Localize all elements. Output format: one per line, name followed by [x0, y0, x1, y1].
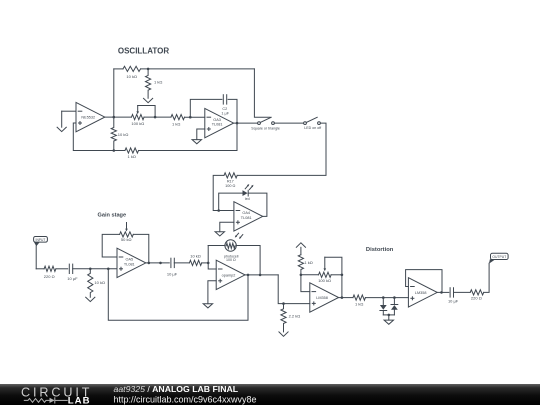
junction OA3 output node — [236, 122, 239, 125]
wire to ground — [388, 315, 390, 320]
wire R17 to OA4 inverting — [213, 175, 234, 210]
wire diode common — [383, 314, 394, 316]
svg-text:led: led — [245, 197, 250, 201]
svg-text:10 µF: 10 µF — [448, 299, 459, 304]
svg-text:LM358: LM358 — [316, 296, 328, 300]
footer bar — [0, 384, 540, 405]
wire opamp2 non-inverting to ground — [208, 281, 216, 304]
LED light arrows — [245, 185, 248, 189]
potentiometer R13 100 k — [319, 272, 332, 277]
wire INPUT down — [35, 246, 37, 269]
resistor R4 1 k bottom feedback — [125, 148, 139, 153]
wire bottom feedback — [139, 150, 238, 152]
wire U1 non-inverting feedback loop — [73, 123, 125, 151]
svg-text:C2: C2 — [222, 107, 227, 111]
wire up to OA3 output node — [236, 123, 238, 150]
resistor R17 100 Ohm — [224, 173, 237, 178]
svg-text:1 kΩ: 1 kΩ — [172, 121, 180, 126]
svg-text:1 kΩ: 1 kΩ — [128, 154, 136, 159]
capacitor C3 10 uF — [68, 264, 70, 273]
svg-text:10 kΩ: 10 kΩ — [118, 132, 129, 137]
R9 wiper arrow — [126, 223, 128, 229]
resistor R6 1 k series — [171, 115, 185, 120]
op-amp opamp2 — [216, 260, 245, 289]
junction D2 node — [382, 296, 385, 299]
svg-text:OUTPUT: OUTPUT — [492, 255, 506, 259]
ground (arrow) at U1 inverting input — [57, 127, 66, 131]
op-amp OA4 TL081 — [234, 202, 263, 231]
svg-text:R17: R17 — [227, 179, 234, 183]
svg-text:100 Ω: 100 Ω — [225, 184, 235, 188]
diode D3 (up) — [393, 298, 395, 305]
svg-text:100 kΩ: 100 kΩ — [131, 121, 144, 126]
wire C5 to R15 — [454, 291, 471, 293]
wire bottom feedback loop to gain stage — [108, 269, 248, 321]
ground (triangle) below diodes — [384, 320, 393, 324]
wire SW2 down to R17 — [237, 123, 326, 175]
svg-text:OA4: OA4 — [242, 211, 250, 215]
wire C3 to OA5 non-inverting — [73, 268, 117, 270]
junction feedback tap node — [107, 268, 110, 271]
svg-text:220 Ω: 220 Ω — [471, 296, 482, 301]
R5 wiper arrow and rheostat strap — [137, 106, 139, 112]
wire LED feedback loop — [219, 193, 243, 210]
resistor R14 1 k series — [353, 295, 365, 300]
junction U1 output node — [113, 116, 116, 119]
svg-text:Distortion: Distortion — [366, 247, 394, 253]
R13 wiper arrow and strap — [324, 257, 326, 268]
flag INPUT — [34, 237, 48, 243]
wire OA3 non-inverting to ground — [197, 129, 205, 140]
potentiometer R5 100 k — [132, 115, 145, 120]
ground (arrow) below R11 — [279, 332, 288, 336]
wire R9 to OA5 output — [133, 234, 149, 263]
svg-text:10 kΩ: 10 kΩ — [190, 254, 201, 259]
wire LM358 output — [339, 297, 353, 299]
junction opamp2 inverting node — [207, 262, 210, 265]
junction D3 node — [393, 296, 396, 299]
wire OA5 feedback loop — [102, 234, 119, 257]
wire LED to OA4 output — [248, 193, 267, 216]
svg-text:1 µF: 1 µF — [221, 112, 229, 116]
wire pot to output node — [341, 275, 343, 298]
wire R14 to clipping diodes — [365, 297, 408, 299]
resistor R7 220 Ohm — [44, 266, 56, 271]
wire jog to opamp2 inverting input — [208, 263, 216, 269]
wire R10 to opamp2 node — [202, 262, 209, 264]
svg-text:1 kΩ: 1 kΩ — [154, 79, 162, 84]
svg-text:TL081: TL081 — [124, 262, 135, 266]
svg-text:TL081: TL081 — [212, 123, 223, 127]
wire C2 feedback loop — [190, 99, 222, 117]
svg-text:1 kΩ: 1 kΩ — [355, 301, 363, 306]
svg-text:http://circuitlab.com/c9v6c4xx: http://circuitlab.com/c9v6c4xxwvy8e — [114, 394, 257, 404]
wire node to pot — [301, 274, 319, 276]
svg-text:10 µF: 10 µF — [67, 276, 78, 281]
ground (triangle) at OA4 — [215, 232, 224, 236]
op-amp U3 LM358 buffer — [408, 278, 437, 307]
junction LM358 output node — [341, 296, 344, 299]
resistor R10 10 k series — [189, 260, 201, 265]
svg-text:Gain stage: Gain stage — [97, 212, 126, 218]
switch SW2 LED on off — [304, 122, 307, 125]
wire pot to R6 — [144, 116, 171, 118]
supply arrow node — [300, 247, 302, 254]
wire opamp2 output to distortion — [278, 275, 310, 304]
resistor R11 2.2 k to ground — [281, 304, 286, 332]
LED D1 led — [243, 190, 248, 196]
svg-text:100 Ω: 100 Ω — [226, 258, 236, 262]
photocell light arrows — [236, 233, 239, 236]
wire output node to top rail — [113, 69, 115, 117]
junction pot right node — [341, 274, 344, 277]
wire U3 output — [437, 291, 449, 293]
resistor R12 1 k from supply — [298, 255, 303, 275]
junction U3 output node — [440, 291, 443, 294]
svg-text:LM358: LM358 — [415, 291, 427, 295]
wire OA5 output — [146, 262, 170, 264]
svg-text:Square or triangle: Square or triangle — [251, 126, 280, 130]
wire pot right — [331, 274, 342, 276]
wire OA4 non-inverting to ground — [220, 222, 234, 232]
wire U3 feedback loop — [406, 270, 442, 293]
wire opamp2 output — [245, 274, 278, 276]
capacitor C4 10 uF coupling — [170, 258, 172, 267]
svg-text:10 µF: 10 µF — [167, 271, 178, 276]
wire square-wave feed to SW1 throw — [254, 69, 270, 117]
junction OA3 input node — [189, 116, 192, 119]
wire R15 to OUTPUT flag — [484, 263, 489, 292]
ground (triangle) at OA3 — [192, 140, 201, 144]
wire U1 output — [105, 116, 132, 118]
op-amp OA3 TL081 — [205, 108, 234, 137]
potentiometer R9 50 k gain — [120, 232, 134, 237]
svg-text:OSCILLATOR: OSCILLATOR — [118, 47, 169, 56]
switch SW1 Square or triangle — [258, 122, 261, 125]
ground (arrow) below R2 — [144, 98, 153, 102]
ground (triangle) at opamp2 — [203, 304, 212, 308]
svg-text:opamp2: opamp2 — [222, 274, 236, 278]
svg-text:10 kΩ: 10 kΩ — [94, 280, 105, 285]
svg-text:LAB: LAB — [68, 395, 91, 405]
svg-text:1 kΩ: 1 kΩ — [304, 260, 312, 265]
junction diode ground node — [388, 314, 391, 317]
flag OUTPUT — [489, 259, 496, 264]
resistor R8 10 k to ground — [88, 269, 93, 297]
junction OA5 output node — [148, 262, 151, 265]
svg-text:LED on off: LED on off — [304, 126, 321, 130]
junction wire node — [159, 262, 162, 265]
resistor R3 10 k vertical — [111, 117, 116, 150]
svg-text:aat9325 / ANALOG LAB FINAL: aat9325 / ANALOG LAB FINAL — [114, 384, 239, 394]
ground (arrow) below R8 — [86, 297, 95, 301]
junction R5 right terminal — [154, 116, 157, 119]
photocell LDR 100 Ohm — [225, 240, 236, 251]
wire photocell feedback right — [236, 246, 260, 275]
svg-text:OA3: OA3 — [213, 118, 221, 122]
wire C2 to OA3 output — [228, 99, 237, 123]
wire node down to LM358 inverting — [301, 275, 310, 292]
svg-text:220 Ω: 220 Ω — [44, 274, 55, 279]
svg-text:2.2 kΩ: 2.2 kΩ — [289, 314, 301, 319]
wire to R7 — [36, 268, 44, 270]
wire U1 inverting input — [62, 110, 76, 112]
op-amp U2 LM358 — [310, 283, 339, 312]
wire C4 to R10 — [174, 262, 189, 264]
wire top rail right — [141, 68, 255, 70]
capacitor C5 10 uF output — [449, 288, 451, 297]
svg-text:INPUT: INPUT — [36, 238, 46, 242]
resistor R2 1 k to ground — [146, 69, 151, 98]
junction bias node — [89, 268, 92, 271]
op-amp U1 NE5532 — [76, 102, 105, 131]
svg-text:NE5532: NE5532 — [81, 116, 95, 120]
svg-text:OA5: OA5 — [125, 258, 133, 262]
wire photocell feedback left — [207, 246, 209, 263]
diode D2 (down) — [382, 298, 384, 305]
resistor R15 220 Ohm — [470, 290, 484, 295]
junction output / bottom loop — [247, 274, 250, 277]
op-amp OA5 TL081 — [117, 248, 146, 277]
wire R7 to C3 — [56, 268, 68, 270]
capacitor C2 1 uF — [222, 95, 224, 104]
resistor R1 10 k top — [123, 66, 141, 71]
wire to OA3 inverting input — [185, 116, 205, 118]
svg-text:50 kΩ: 50 kΩ — [121, 237, 132, 242]
wire OA3 output to switch — [234, 122, 258, 124]
junction bottom node — [113, 149, 116, 152]
svg-text:100 kΩ: 100 kΩ — [318, 278, 331, 283]
junction photocell return — [259, 274, 262, 277]
svg-text:10 kΩ: 10 kΩ — [126, 74, 137, 79]
wire top rail left — [114, 68, 123, 70]
wire SW1 to SW2 — [274, 122, 303, 124]
junction R11 node — [282, 302, 285, 305]
junction R12 / pot node — [300, 274, 303, 277]
junction OA4 inverting node — [217, 209, 220, 212]
svg-text:TL081: TL081 — [241, 216, 252, 220]
junction top rail node — [147, 68, 150, 71]
